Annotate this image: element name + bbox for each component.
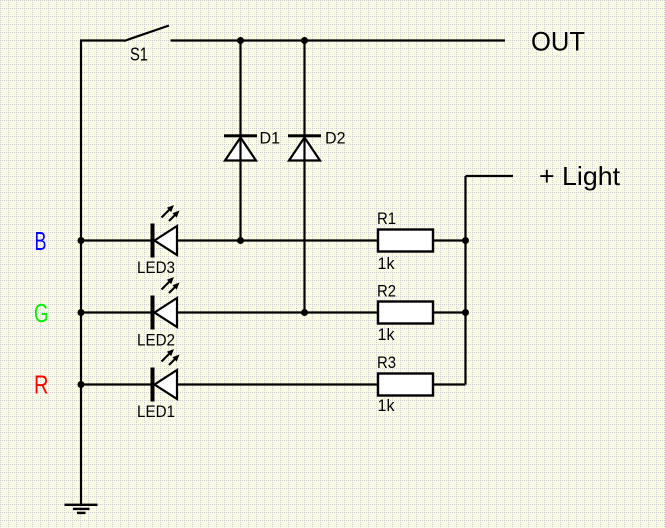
svg-text:R2: R2 (377, 282, 396, 301)
ground (65, 504, 98, 515)
wire row B (81, 239, 466, 241)
junction dot right rail row G (462, 309, 469, 316)
svg-text:D1: D1 (260, 129, 281, 148)
LED1 symbol (151, 368, 178, 402)
diode D2 cathode bar (288, 134, 321, 137)
svg-text:1k: 1k (378, 325, 395, 344)
junction dot left rail row R (78, 381, 85, 388)
svg-text:D2: D2 (325, 129, 346, 148)
LED3 symbol (151, 224, 178, 258)
LED2 symbol (151, 296, 178, 330)
svg-text:R1: R1 (377, 209, 396, 228)
junction dot right rail row B (462, 237, 469, 244)
LED2 arrow 2 (169, 283, 180, 294)
svg-text:LED1: LED1 (137, 403, 175, 421)
wire D2 vertical (303, 41, 305, 313)
junction dot D2 to row G (301, 309, 308, 316)
svg-text:OUT: OUT (531, 27, 585, 57)
svg-text:LED3: LED3 (137, 259, 175, 277)
svg-text:G: G (34, 298, 49, 328)
junction dot left rail row B (78, 237, 85, 244)
resistor R1 body (378, 230, 433, 252)
wire row G (81, 311, 466, 313)
LED1 arrow 1 (162, 349, 175, 362)
wire top to OUT (171, 39, 506, 41)
svg-text:B: B (35, 226, 47, 256)
wire left rail vertical (80, 41, 82, 505)
junction dot top D1 (237, 37, 244, 44)
LED3 arrow 2 (169, 211, 180, 222)
svg-text:1k: 1k (378, 254, 395, 273)
switch S1 lever (124, 26, 169, 42)
diode D1 cathode bar (224, 134, 257, 137)
LED2 arrow 1 (162, 277, 175, 290)
svg-text:+ Light: + Light (539, 161, 621, 191)
svg-text:R: R (34, 370, 49, 400)
wire + Light stub (466, 175, 514, 177)
svg-text:R3: R3 (377, 353, 396, 372)
wire D1 vertical (239, 41, 241, 241)
wire top from rail to switch (80, 39, 125, 41)
junction dot D1 to row B (237, 237, 244, 244)
resistor R2 body (378, 302, 433, 324)
junction dot left rail row G (78, 309, 85, 316)
LED3 arrow 1 (162, 205, 175, 218)
diode D2 triangle (289, 138, 320, 161)
diode D1 triangle (225, 138, 256, 161)
wire row R (81, 383, 466, 385)
wire right rail vertical (464, 176, 466, 385)
LED1 arrow 2 (169, 355, 180, 366)
svg-text:S1: S1 (130, 45, 148, 65)
svg-text:1k: 1k (378, 396, 395, 415)
svg-text:LED2: LED2 (137, 332, 175, 350)
junction dot top D2 (301, 37, 308, 44)
resistor R3 body (378, 374, 433, 396)
